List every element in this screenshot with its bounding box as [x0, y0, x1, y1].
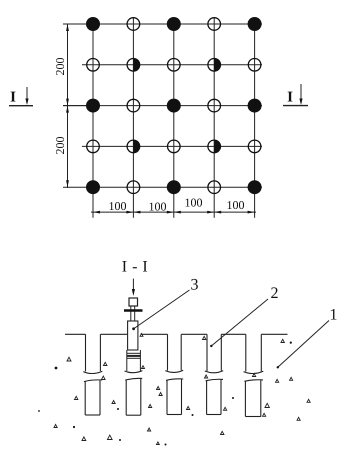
soil marks: [38, 334, 310, 446]
svg-text:100: 100: [109, 199, 127, 213]
left dimension line: [63, 24, 86, 188]
svg-text:I: I: [10, 90, 16, 106]
section marker left arrow: [25, 87, 28, 105]
pile symbol half r2c2: [127, 59, 140, 72]
pile symbols (plan view): [86, 17, 262, 194]
ground surface line: [65, 333, 288, 335]
pile symbol open r1c2: [127, 18, 140, 31]
pile 2 break upper arc: [125, 371, 143, 373]
grid row line 2: [82, 64, 262, 66]
pile symbol open r4c3: [168, 140, 181, 153]
bottom dimension line: [91, 211, 256, 214]
pile 1 upper: [83, 334, 102, 373]
pile symbol open r5c2: [127, 181, 140, 194]
pile driver stem: [131, 306, 135, 321]
pile 2 lower: [125, 378, 142, 415]
grid column line A: [92, 18, 94, 218]
pile 2 collar band lines: [127, 353, 141, 358]
svg-text:I: I: [287, 90, 293, 106]
svg-text:100: 100: [227, 198, 245, 212]
pile symbol open r2c5: [248, 59, 261, 72]
pile symbol solid r5c3: [167, 180, 181, 194]
pile symbol half r2c4: [208, 59, 221, 72]
svg-text:100: 100: [185, 196, 203, 210]
pile 2 upper shaft: [127, 350, 141, 371]
pile driver cap block: [129, 298, 138, 306]
dim arrow down at row5: [66, 180, 69, 187]
dim arrows at row3: [66, 99, 69, 106]
pile symbol open r3c4: [208, 99, 221, 112]
section title arrow: [132, 279, 135, 296]
pile 3 lower: [166, 379, 183, 415]
pile symbol open r4c1: [87, 140, 100, 153]
dim tick row3 extension: [63, 105, 86, 107]
grid column line E: [254, 18, 256, 218]
pile symbol solid r5c5: [248, 180, 262, 194]
pile symbol solid r3c5: [248, 99, 262, 113]
pile symbol open r1c4: [208, 18, 221, 31]
pile symbol half r4c2: [127, 140, 140, 153]
pile symbol solid r1c1: [86, 17, 100, 31]
leader line 3: [132, 290, 189, 330]
pile 4 upper: [205, 334, 223, 373]
svg-text:2: 2: [271, 285, 279, 302]
pile 3 upper: [165, 334, 183, 372]
svg-text:200: 200: [53, 137, 67, 155]
svg-text:200: 200: [53, 58, 67, 76]
pile 5 lower: [244, 380, 263, 417]
svg-text:I - I: I - I: [122, 259, 148, 276]
svg-text:100: 100: [149, 200, 167, 214]
svg-text:3: 3: [191, 277, 199, 294]
svg-text:1: 1: [330, 307, 338, 324]
section marker right underline: [283, 105, 308, 107]
grid row line 1: [63, 23, 262, 25]
section marker left underline: [9, 105, 33, 107]
dim arrow up at row1: [66, 24, 69, 31]
pile symbol solid r1c5: [248, 17, 262, 31]
grid row line 5: [63, 186, 262, 188]
grid row line 4: [82, 145, 262, 147]
pile 2 cap rect: [128, 321, 138, 350]
grid column line B: [132, 18, 134, 218]
pile symbol solid r1c3: [167, 17, 181, 31]
pile symbol open r5c4: [208, 181, 221, 194]
leader line 2: [210, 299, 268, 347]
arrows at col ticks: [93, 211, 100, 214]
pile symbol open r2c3: [168, 59, 181, 72]
leader line 1: [277, 321, 329, 369]
pile symbol half r4c4: [208, 140, 221, 153]
pile symbol solid r3c1: [86, 99, 100, 113]
pile symbol open r2c1: [87, 59, 100, 72]
pile symbol open r3c2: [127, 99, 140, 112]
section marker right arrow: [299, 84, 302, 105]
grid column line D: [213, 18, 215, 218]
grid row line 3: [63, 105, 262, 107]
pile symbol solid r5c1: [86, 180, 100, 194]
grid column line C: [173, 18, 175, 218]
pile driver crossbar: [124, 309, 143, 311]
pile symbol solid r3c3: [167, 99, 181, 113]
pile symbol open r4c5: [248, 140, 261, 153]
pile 4 lower: [206, 379, 223, 414]
pile 1 lower: [84, 380, 102, 415]
pile 5 upper: [244, 334, 264, 373]
